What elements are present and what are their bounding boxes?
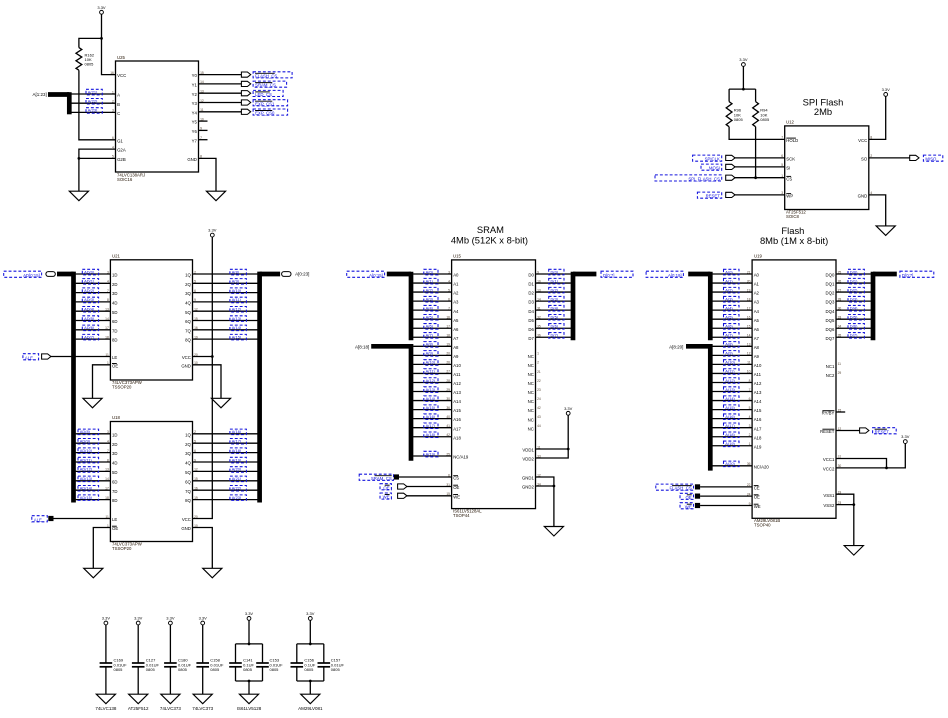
net label RESET (Flash) <box>873 428 897 435</box>
svg-text:GND: GND <box>858 194 868 199</box>
net label A(16) U15 <box>424 414 438 420</box>
junction G2A/G2B <box>78 157 81 160</box>
capacitor C157 0.01UF <box>318 658 345 672</box>
svg-text:A(5): A(5) <box>725 315 733 320</box>
svg-text:0805: 0805 <box>146 667 156 672</box>
svg-text:SPI_FLASH_CS: SPI_FLASH_CS <box>688 177 720 182</box>
net label AD(7) <box>82 334 98 340</box>
wire Y3 to port <box>199 102 242 104</box>
svg-text:A(0): A(0) <box>725 269 733 274</box>
wire C141 rail bottom <box>236 680 263 682</box>
svg-text:Y6: Y6 <box>192 129 198 134</box>
svg-text:NC: NC <box>528 381 534 386</box>
net label D(0) U15 <box>549 269 564 275</box>
wire WE (SRAM) <box>406 495 452 497</box>
wire U18 1Q to A bus <box>193 433 258 435</box>
svg-text:A(13): A(13) <box>725 387 735 392</box>
svg-text:CE: CE <box>754 486 760 491</box>
bus A[1:23] vertical <box>67 92 72 114</box>
svg-text:DQ1: DQ1 <box>826 282 835 287</box>
wire bus to U19 A6 <box>712 327 752 329</box>
wire R94 to CS <box>755 127 757 178</box>
net label A(19) U15 <box>424 451 438 457</box>
net label D(5) U19 <box>848 315 864 321</box>
svg-text:VDD2: VDD2 <box>522 457 534 462</box>
wire GND down <box>553 486 555 527</box>
svg-text:3.3V: 3.3V <box>97 5 106 10</box>
svg-text:A(23): A(23) <box>232 495 242 500</box>
wire Y7 stub <box>199 139 208 141</box>
wire 3.3V to VDD <box>536 415 569 458</box>
svg-text:6D: 6D <box>112 479 118 484</box>
svg-text:D6: D6 <box>528 327 534 332</box>
wire VSS down <box>853 505 855 546</box>
wire bus to U19 A8 <box>712 345 752 347</box>
wire bus to U19 A19 <box>712 445 752 447</box>
wire U21 VCC <box>193 356 213 358</box>
bus A[8:18] vertical (SRAM) <box>409 344 414 461</box>
svg-text:2Mb: 2Mb <box>814 106 832 117</box>
svg-text:DQ3: DQ3 <box>826 300 835 305</box>
bus label A[8:18] (SRAM) <box>355 345 369 350</box>
svg-text:NC: NC <box>528 408 534 413</box>
svg-text:5D: 5D <box>112 310 118 315</box>
wire AD bus to U21 1D <box>76 273 111 275</box>
net label D(7) U19 <box>848 333 864 339</box>
svg-text:VDD1: VDD1 <box>522 448 534 453</box>
wire C127 top <box>137 625 139 663</box>
net label A(13) U15 <box>424 387 438 393</box>
wire 3.3V to U12 VCC <box>869 96 886 139</box>
svg-text:DQ2: DQ2 <box>826 291 835 296</box>
svg-text:21: 21 <box>537 370 541 374</box>
wire bus to U19 A5 <box>712 318 752 320</box>
svg-text:VCC: VCC <box>858 138 867 143</box>
svg-text:A17: A17 <box>754 426 762 431</box>
net label A(0) U15 <box>424 269 438 275</box>
power 3.3V (C156) <box>306 611 315 620</box>
net label A(10) <box>230 288 247 294</box>
wire SRAM_CS <box>399 476 452 478</box>
port OE (SRAM) <box>398 484 407 489</box>
wire bus to U15 A3 <box>413 300 452 302</box>
wire AD bus to U21 8D <box>76 338 111 340</box>
svg-text:AM29LV081: AM29LV081 <box>298 706 323 711</box>
svg-text:RESET: RESET <box>820 429 835 434</box>
wire C180 bottom <box>169 667 171 694</box>
label 74LVC373 <box>192 706 213 711</box>
net label D(6) U15 <box>549 324 564 330</box>
wire C157 right down <box>323 644 325 663</box>
wire U19 DQ6 to bus <box>836 327 871 329</box>
svg-text:4Q: 4Q <box>185 301 191 306</box>
net label MISO <box>923 155 942 162</box>
svg-text:NC/A19: NC/A19 <box>453 455 469 460</box>
wire U21 1Q to A bus <box>193 273 258 275</box>
net label A(18) U19 <box>724 432 740 438</box>
svg-text:VCC: VCC <box>182 355 191 360</box>
ground (C169) <box>96 694 115 704</box>
net label D(2) U15 <box>549 287 564 293</box>
bus A[8:18] stub (SRAM) <box>371 344 411 349</box>
svg-text:A18: A18 <box>453 435 461 440</box>
svg-text:A(18): A(18) <box>426 432 436 437</box>
wire G2A <box>79 149 116 158</box>
net label D(4) U15 <box>549 305 564 311</box>
net label A(12) U15 <box>424 378 438 384</box>
net label A(11) U15 <box>424 369 438 375</box>
bus A[0:7] stub (Flash) <box>688 272 710 277</box>
wire VDD1 <box>536 448 569 450</box>
wire pullup rail <box>729 88 756 90</box>
wire VSS2 <box>836 504 854 506</box>
ground (C127) <box>129 694 148 704</box>
wire C180 top <box>169 625 171 663</box>
power 3.3V (U19) <box>901 434 910 443</box>
port AD[0:15] <box>46 272 55 277</box>
wire C141 left down <box>235 644 237 663</box>
svg-text:7Q: 7Q <box>185 489 191 494</box>
net label MOSI <box>701 164 722 171</box>
svg-text:2Q: 2Q <box>185 442 191 447</box>
svg-text:D(3): D(3) <box>850 296 858 301</box>
wire R94 top <box>755 89 757 102</box>
wire U18 2Q to A bus <box>193 442 258 444</box>
port LED_CS <box>241 91 250 96</box>
net label FLASH_CS <box>253 72 292 79</box>
net label SPICLK <box>693 155 722 162</box>
svg-text:22: 22 <box>537 379 541 383</box>
ground (C141) <box>239 694 258 704</box>
svg-text:0805: 0805 <box>85 62 95 67</box>
svg-text:0805: 0805 <box>304 667 314 672</box>
net label AD(8) <box>78 429 99 435</box>
svg-text:D(6): D(6) <box>850 324 858 329</box>
wire G2B to ground <box>79 158 116 191</box>
wire WP <box>734 194 785 196</box>
port label A[0:15] (SRAM) <box>347 271 385 278</box>
svg-text:SPICLK: SPICLK <box>705 157 720 162</box>
svg-text:A(15): A(15) <box>232 334 242 339</box>
junction pullup rail <box>742 88 745 91</box>
bus A[1:23] horizontal <box>48 92 69 97</box>
wire U15 D5 to bus <box>536 318 571 320</box>
net label A(22) <box>230 486 247 492</box>
U25 right pin names <box>187 71 204 162</box>
ground (U18 GND) <box>203 568 222 578</box>
svg-text:74LVC138: 74LVC138 <box>95 706 116 711</box>
svg-text:0805: 0805 <box>243 667 253 672</box>
port SRAM_CS <box>241 81 250 86</box>
wire bus to U19 A1 <box>712 282 752 284</box>
svg-text:A(3): A(3) <box>725 296 733 301</box>
net label A(5) U15 <box>424 315 438 321</box>
wire bus to U19 A17 <box>712 427 752 429</box>
svg-text:1D: 1D <box>112 273 118 278</box>
svg-text:0805: 0805 <box>331 667 341 672</box>
wire bus to U19 A10 <box>712 363 752 365</box>
svg-text:AD(14): AD(14) <box>80 486 93 491</box>
svg-text:AD(2): AD(2) <box>84 288 95 293</box>
svg-text:SI: SI <box>786 166 790 171</box>
svg-text:A10: A10 <box>453 363 461 368</box>
net label A(10) U15 <box>424 360 438 366</box>
net label A(9) U15 <box>424 351 438 357</box>
svg-text:U12: U12 <box>786 119 794 124</box>
svg-text:ALE: ALE <box>25 355 33 360</box>
net label FLASH_CS <box>656 484 694 491</box>
svg-text:A(15): A(15) <box>725 405 735 410</box>
net label A(1) U19 <box>724 278 740 284</box>
svg-text:VSS2: VSS2 <box>823 503 835 508</box>
wire U21 2Q to A bus <box>193 282 258 284</box>
svg-text:A(4): A(4) <box>426 305 434 310</box>
svg-text:AD(8): AD(8) <box>80 429 91 434</box>
svg-text:4D: 4D <box>112 301 118 306</box>
bus D[0:7] vertical (SRAM) <box>571 272 576 341</box>
svg-text:AD(11): AD(11) <box>80 457 93 462</box>
svg-text:3.3V: 3.3V <box>306 611 315 616</box>
wire bus to U15 A10 <box>413 363 452 365</box>
svg-text:A(5): A(5) <box>426 315 434 320</box>
wire C141 rail top <box>236 643 263 645</box>
wire GND1 <box>536 477 554 486</box>
wire 3.3V to U25 VCC <box>102 14 116 74</box>
U12 pin names <box>781 136 872 199</box>
net label D(1) U15 <box>549 278 564 284</box>
svg-text:Y5: Y5 <box>192 120 198 125</box>
ground (C180) <box>161 694 180 704</box>
wire bus to U15 A11 <box>413 372 452 374</box>
port FLASH_CS <box>241 72 250 77</box>
IC U18 74LVC373 latch <box>110 415 192 551</box>
label 74LVC138 <box>95 706 116 711</box>
svg-text:A14: A14 <box>754 399 762 404</box>
svg-text:0805: 0805 <box>210 667 220 672</box>
svg-text:U15: U15 <box>453 253 461 258</box>
wire bus to U15 A14 <box>413 400 452 402</box>
net label A(21) <box>86 89 102 95</box>
wire C158 top <box>202 625 204 663</box>
wire AD bus to U21 2D <box>76 282 111 284</box>
svg-text:D4: D4 <box>528 309 534 314</box>
svg-text:OE: OE <box>383 485 389 490</box>
net label A(21) <box>230 476 247 482</box>
port MISO <box>910 155 919 160</box>
svg-text:D7: D7 <box>528 336 534 341</box>
label AM29LV081 <box>298 706 323 711</box>
wire 3.3V rail to VCC pins <box>193 237 213 519</box>
net label A(18) <box>230 448 247 454</box>
svg-text:3.3V: 3.3V <box>901 434 910 439</box>
svg-text:A(13): A(13) <box>232 316 242 321</box>
svg-text:A(21): A(21) <box>88 89 98 94</box>
svg-text:A(12): A(12) <box>232 307 242 312</box>
wire AD bus to U18 6D <box>76 480 111 482</box>
svg-text:0805: 0805 <box>734 117 744 122</box>
svg-text:NC: NC <box>528 354 534 359</box>
svg-text:A8: A8 <box>453 345 459 350</box>
svg-text:29: 29 <box>838 371 842 375</box>
svg-text:NC2: NC2 <box>826 373 835 378</box>
svg-text:AD(7): AD(7) <box>84 334 95 339</box>
net label AD(1) <box>82 279 98 285</box>
net label A(16) U19 <box>724 414 740 420</box>
port A[0:23] <box>282 272 291 277</box>
svg-text:A(19): A(19) <box>725 441 735 446</box>
wire ALE to U18 LE <box>54 518 111 520</box>
svg-text:NC: NC <box>528 399 534 404</box>
wire RESET (Flash) <box>836 430 860 432</box>
svg-text:D(2): D(2) <box>551 287 559 292</box>
svg-text:43: 43 <box>537 415 541 419</box>
wire U21 OE to ground <box>93 365 111 399</box>
net label AD(13) <box>78 476 99 482</box>
net label A(2) U15 <box>424 287 438 293</box>
net label A(8) <box>230 269 247 275</box>
svg-text:A(22): A(22) <box>88 99 98 104</box>
wire AD bus to U18 3D <box>76 452 111 454</box>
net label A(15) U15 <box>424 405 438 411</box>
wire GND2 to ground <box>536 485 554 487</box>
wire bus to U19 A16 <box>712 418 752 420</box>
power 3.3V (U15) <box>564 406 573 415</box>
svg-text:A(7): A(7) <box>725 333 733 338</box>
svg-text:A(8): A(8) <box>426 342 434 347</box>
wire U18 OE to ground <box>93 528 110 569</box>
port label D[0:7] (Flash) <box>900 271 934 278</box>
wire U21 7Q to A bus <box>193 329 258 331</box>
junction C141 top <box>248 643 251 646</box>
svg-text:A0: A0 <box>453 273 459 278</box>
svg-text:D1: D1 <box>528 282 534 287</box>
wire pullup branch <box>79 38 102 47</box>
net label A(1) U15 <box>424 278 438 284</box>
svg-text:D(3): D(3) <box>551 296 559 301</box>
port RESET (U12) <box>726 192 735 197</box>
wire U21 GND to ground <box>193 365 222 399</box>
svg-text:A(12): A(12) <box>426 378 436 383</box>
wire U21 5Q to A bus <box>193 310 258 312</box>
bus AD horizontal stub <box>57 272 74 277</box>
wire Y0 to port <box>199 74 242 76</box>
svg-text:3.3V: 3.3V <box>166 616 175 621</box>
svg-text:2Q: 2Q <box>185 282 191 287</box>
net label A(23) <box>230 495 247 501</box>
resistor R96 10K <box>726 102 743 127</box>
label AT25F512 <box>128 706 149 711</box>
junction GND2 <box>553 485 556 488</box>
svg-text:D(0): D(0) <box>551 269 559 274</box>
wire bus to U15 A5 <box>413 318 452 320</box>
net label A(7) U19 <box>724 333 740 339</box>
wire RY/BY stub <box>836 411 845 413</box>
svg-text:A7: A7 <box>754 336 760 341</box>
port label A[0:23] <box>295 272 309 277</box>
net label AD(3) <box>82 297 98 303</box>
svg-text:SRAM_CS: SRAM_CS <box>255 83 276 88</box>
wire C158 bottom <box>202 667 204 694</box>
svg-text:Y2: Y2 <box>192 92 198 97</box>
net label EXP_CS1 <box>253 100 288 107</box>
wire SPICLK <box>734 157 785 159</box>
wire U18 GND to ground <box>193 528 213 569</box>
svg-text:OE: OE <box>112 363 118 368</box>
svg-text:A(20): A(20) <box>232 467 242 472</box>
wire AD bus to U21 6D <box>76 320 111 322</box>
U21 pin names <box>105 270 198 368</box>
wire C141 left up <box>235 667 237 681</box>
wire bus to U19 A0 <box>712 273 752 275</box>
net label A(10) U19 <box>724 360 740 366</box>
svg-text:A(16): A(16) <box>232 429 242 434</box>
net label A(4) U15 <box>424 305 438 311</box>
wire bus to U15 A9 <box>413 354 452 356</box>
svg-text:7D: 7D <box>112 328 118 333</box>
junction C141 bottom <box>248 680 251 683</box>
port SPICLK <box>726 155 735 160</box>
wire U21 6Q to A bus <box>193 320 258 322</box>
net label A(11) U19 <box>724 369 740 375</box>
svg-text:A4: A4 <box>754 309 760 314</box>
bus D[0:7] vertical (Flash) <box>871 272 876 341</box>
net label A(19) <box>230 457 247 463</box>
net label AD(0) <box>82 269 98 275</box>
svg-text:DQ4: DQ4 <box>826 309 835 314</box>
net label ALE (U21) <box>23 354 39 361</box>
svg-text:A10: A10 <box>754 363 762 368</box>
svg-text:A[1:23]: A[1:23] <box>33 92 47 97</box>
U18 pin names <box>105 430 198 531</box>
svg-text:RESET: RESET <box>875 429 890 434</box>
net label A(11) <box>230 297 247 303</box>
svg-text:G2A: G2A <box>117 148 126 153</box>
wire Y4 to port <box>199 111 242 113</box>
svg-text:D[0:7]: D[0:7] <box>603 273 614 278</box>
wire Y1 to port <box>199 83 242 85</box>
wire C156 top <box>309 620 311 644</box>
port ALE (U21) <box>42 354 51 359</box>
svg-text:A(11): A(11) <box>725 369 735 374</box>
svg-text:D[0:7]: D[0:7] <box>902 273 913 278</box>
svg-text:2D: 2D <box>112 442 118 447</box>
wire bus to U19 A18 <box>712 436 752 438</box>
wire bus to pin B <box>71 102 116 104</box>
svg-text:LE: LE <box>112 517 117 522</box>
wire AD bus to U18 8D <box>76 499 111 501</box>
net label A(4) U19 <box>724 305 740 311</box>
svg-text:WE: WE <box>685 504 692 509</box>
IC U15 SRAM <box>452 253 536 518</box>
svg-text:MOSI: MOSI <box>709 166 720 171</box>
svg-text:5Q: 5Q <box>185 310 191 315</box>
svg-text:42: 42 <box>537 406 541 410</box>
port OE (Flash) <box>695 494 700 499</box>
svg-text:D(7): D(7) <box>551 333 559 338</box>
port label AD[0:15] <box>4 271 42 278</box>
wire U18 8Q to A bus <box>193 499 258 501</box>
wire U18 4Q to A bus <box>193 461 258 463</box>
svg-text:CS: CS <box>786 176 792 181</box>
svg-text:0805: 0805 <box>760 117 770 122</box>
junction C156 bottom <box>309 680 312 683</box>
svg-text:Y7: Y7 <box>192 138 198 143</box>
svg-text:A(2): A(2) <box>725 287 733 292</box>
net label A(2) U19 <box>724 287 740 293</box>
net label A(14) U19 <box>724 396 740 402</box>
svg-text:A11: A11 <box>754 372 762 377</box>
wire C156 rail top <box>297 643 324 645</box>
